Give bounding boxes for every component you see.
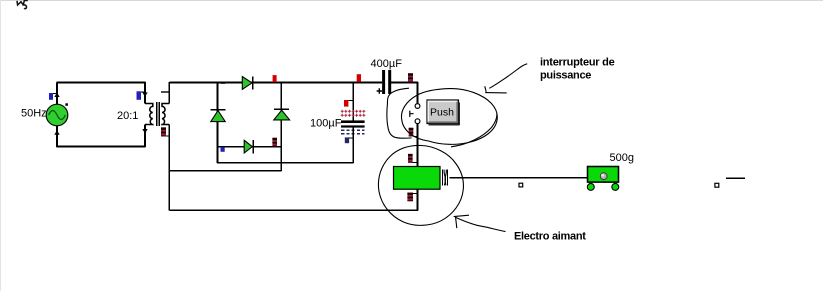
wire source bottom vertical: [56, 126, 58, 148]
capacitor C2 plus sign: [377, 88, 382, 94]
wire secondary bottom vertical long: [168, 125, 170, 211]
svg-text:20:1: 20:1: [117, 110, 138, 122]
capacitor C1 plus charges: [341, 110, 366, 117]
wire bridge right leg: [280, 82, 282, 162]
push switch plunger: [410, 111, 414, 117]
svg-text:500g: 500g: [610, 152, 634, 164]
svg-text:100µF: 100µF: [310, 118, 342, 130]
transformer T1 core: [157, 102, 160, 126]
capacitor C1 bottom lead: [352, 127, 354, 163]
tick on secondary top: [161, 91, 169, 93]
annotation ellipse around push button: [401, 89, 497, 145]
current arrow source bottom: [54, 130, 59, 134]
svg-text:puissance: puissance: [540, 70, 591, 82]
diode D4 right: [274, 109, 290, 120]
cursor tool icon: [17, 1, 28, 9]
transformer T1 secondary coil: [162, 104, 169, 125]
probe red R1 on top rail: [273, 75, 277, 82]
electromagnet L1: [394, 167, 441, 190]
wire magnet bottom vertical: [417, 189, 419, 211]
wire secondary top vertical: [168, 82, 170, 104]
svg-text:Electro aimant: Electro aimant: [514, 230, 586, 242]
wire transformer left vertical lower: [144, 125, 146, 148]
svg-text:interrupteur de: interrupteur de: [540, 56, 615, 68]
label interrupteur de puissance: [540, 56, 615, 81]
probe striped S1 at secondary bottom: [161, 127, 169, 136]
capacitor C1 top plate: [341, 120, 365, 123]
voltage probe blue B4: [221, 147, 225, 152]
junction nub on top rail: [221, 82, 226, 84]
wire bottom long rail: [169, 209, 418, 211]
voltage probe blue B5: [345, 137, 354, 143]
capacitor C1 minus charges: [341, 130, 364, 134]
annotation freehand blob: [387, 88, 412, 138]
capacitor C1 100uF top lead: [352, 82, 354, 120]
voltage probe blue B2: [137, 91, 146, 100]
wire switch top vertical: [417, 82, 419, 104]
node dot at source: [65, 103, 68, 106]
wire stub right: [726, 177, 745, 179]
current arrow source top: [54, 93, 59, 97]
wire bridge bottom diode row: [218, 146, 282, 148]
wire switch to magnet vertical: [417, 124, 419, 167]
transformer T1 primary coil: [145, 104, 153, 125]
node square B: [715, 183, 719, 187]
probe striped S5: [408, 154, 418, 163]
wire link from secondary: [169, 170, 281, 172]
probe striped S6: [407, 193, 417, 202]
probe striped S4: [409, 128, 418, 137]
node square A: [519, 183, 523, 187]
wire primary bottom rail: [56, 146, 145, 148]
wire primary top rail: [56, 82, 145, 84]
current arrow transformer bottom: [142, 129, 147, 133]
wire source top vertical: [56, 83, 58, 105]
wire bridge bottom rail to cap: [217, 162, 354, 164]
annotation arrow to switch: [485, 64, 527, 93]
diode D2 bottom: [244, 140, 253, 153]
cart weight 500g: [587, 167, 618, 191]
voltage probe blue B1: [49, 93, 57, 100]
svg-text:Push: Push: [430, 106, 454, 118]
electromagnet spring contact: [443, 170, 448, 186]
wire transformer left vertical upper: [144, 82, 146, 104]
probe striped S2 on right leg: [272, 138, 277, 147]
push button SW1: [427, 100, 460, 125]
wire rail right of 400uF: [391, 82, 418, 84]
probe striped S3 at corner: [408, 73, 413, 82]
window left edge: [0, 0, 2, 291]
diode D3 left: [211, 110, 226, 122]
wire magnet to cart: [450, 177, 588, 179]
annotation circle around magnet: [378, 145, 463, 225]
probe red R2 on top rail: [357, 74, 361, 82]
annotation arrow to magnet: [454, 215, 506, 231]
annotation ellipse second stroke: [451, 114, 497, 147]
ac source V1: [46, 104, 68, 126]
capacitor C2 400uF plates: [382, 70, 391, 94]
wire bridge left leg: [217, 82, 219, 163]
current arrow transformer top: [142, 92, 147, 96]
svg-text:400µF: 400µF: [371, 58, 403, 70]
push switch contact circles: [415, 104, 420, 124]
wire top rail secondary: [169, 82, 382, 84]
wire riser at right leg: [280, 162, 282, 171]
svg-text:50Hz: 50Hz: [21, 108, 47, 120]
window top edge: [0, 0, 823, 2]
diode D1 top: [242, 76, 253, 89]
capacitor C1 bottom plate: [341, 125, 365, 127]
probe red R3 at cap top: [344, 100, 353, 107]
